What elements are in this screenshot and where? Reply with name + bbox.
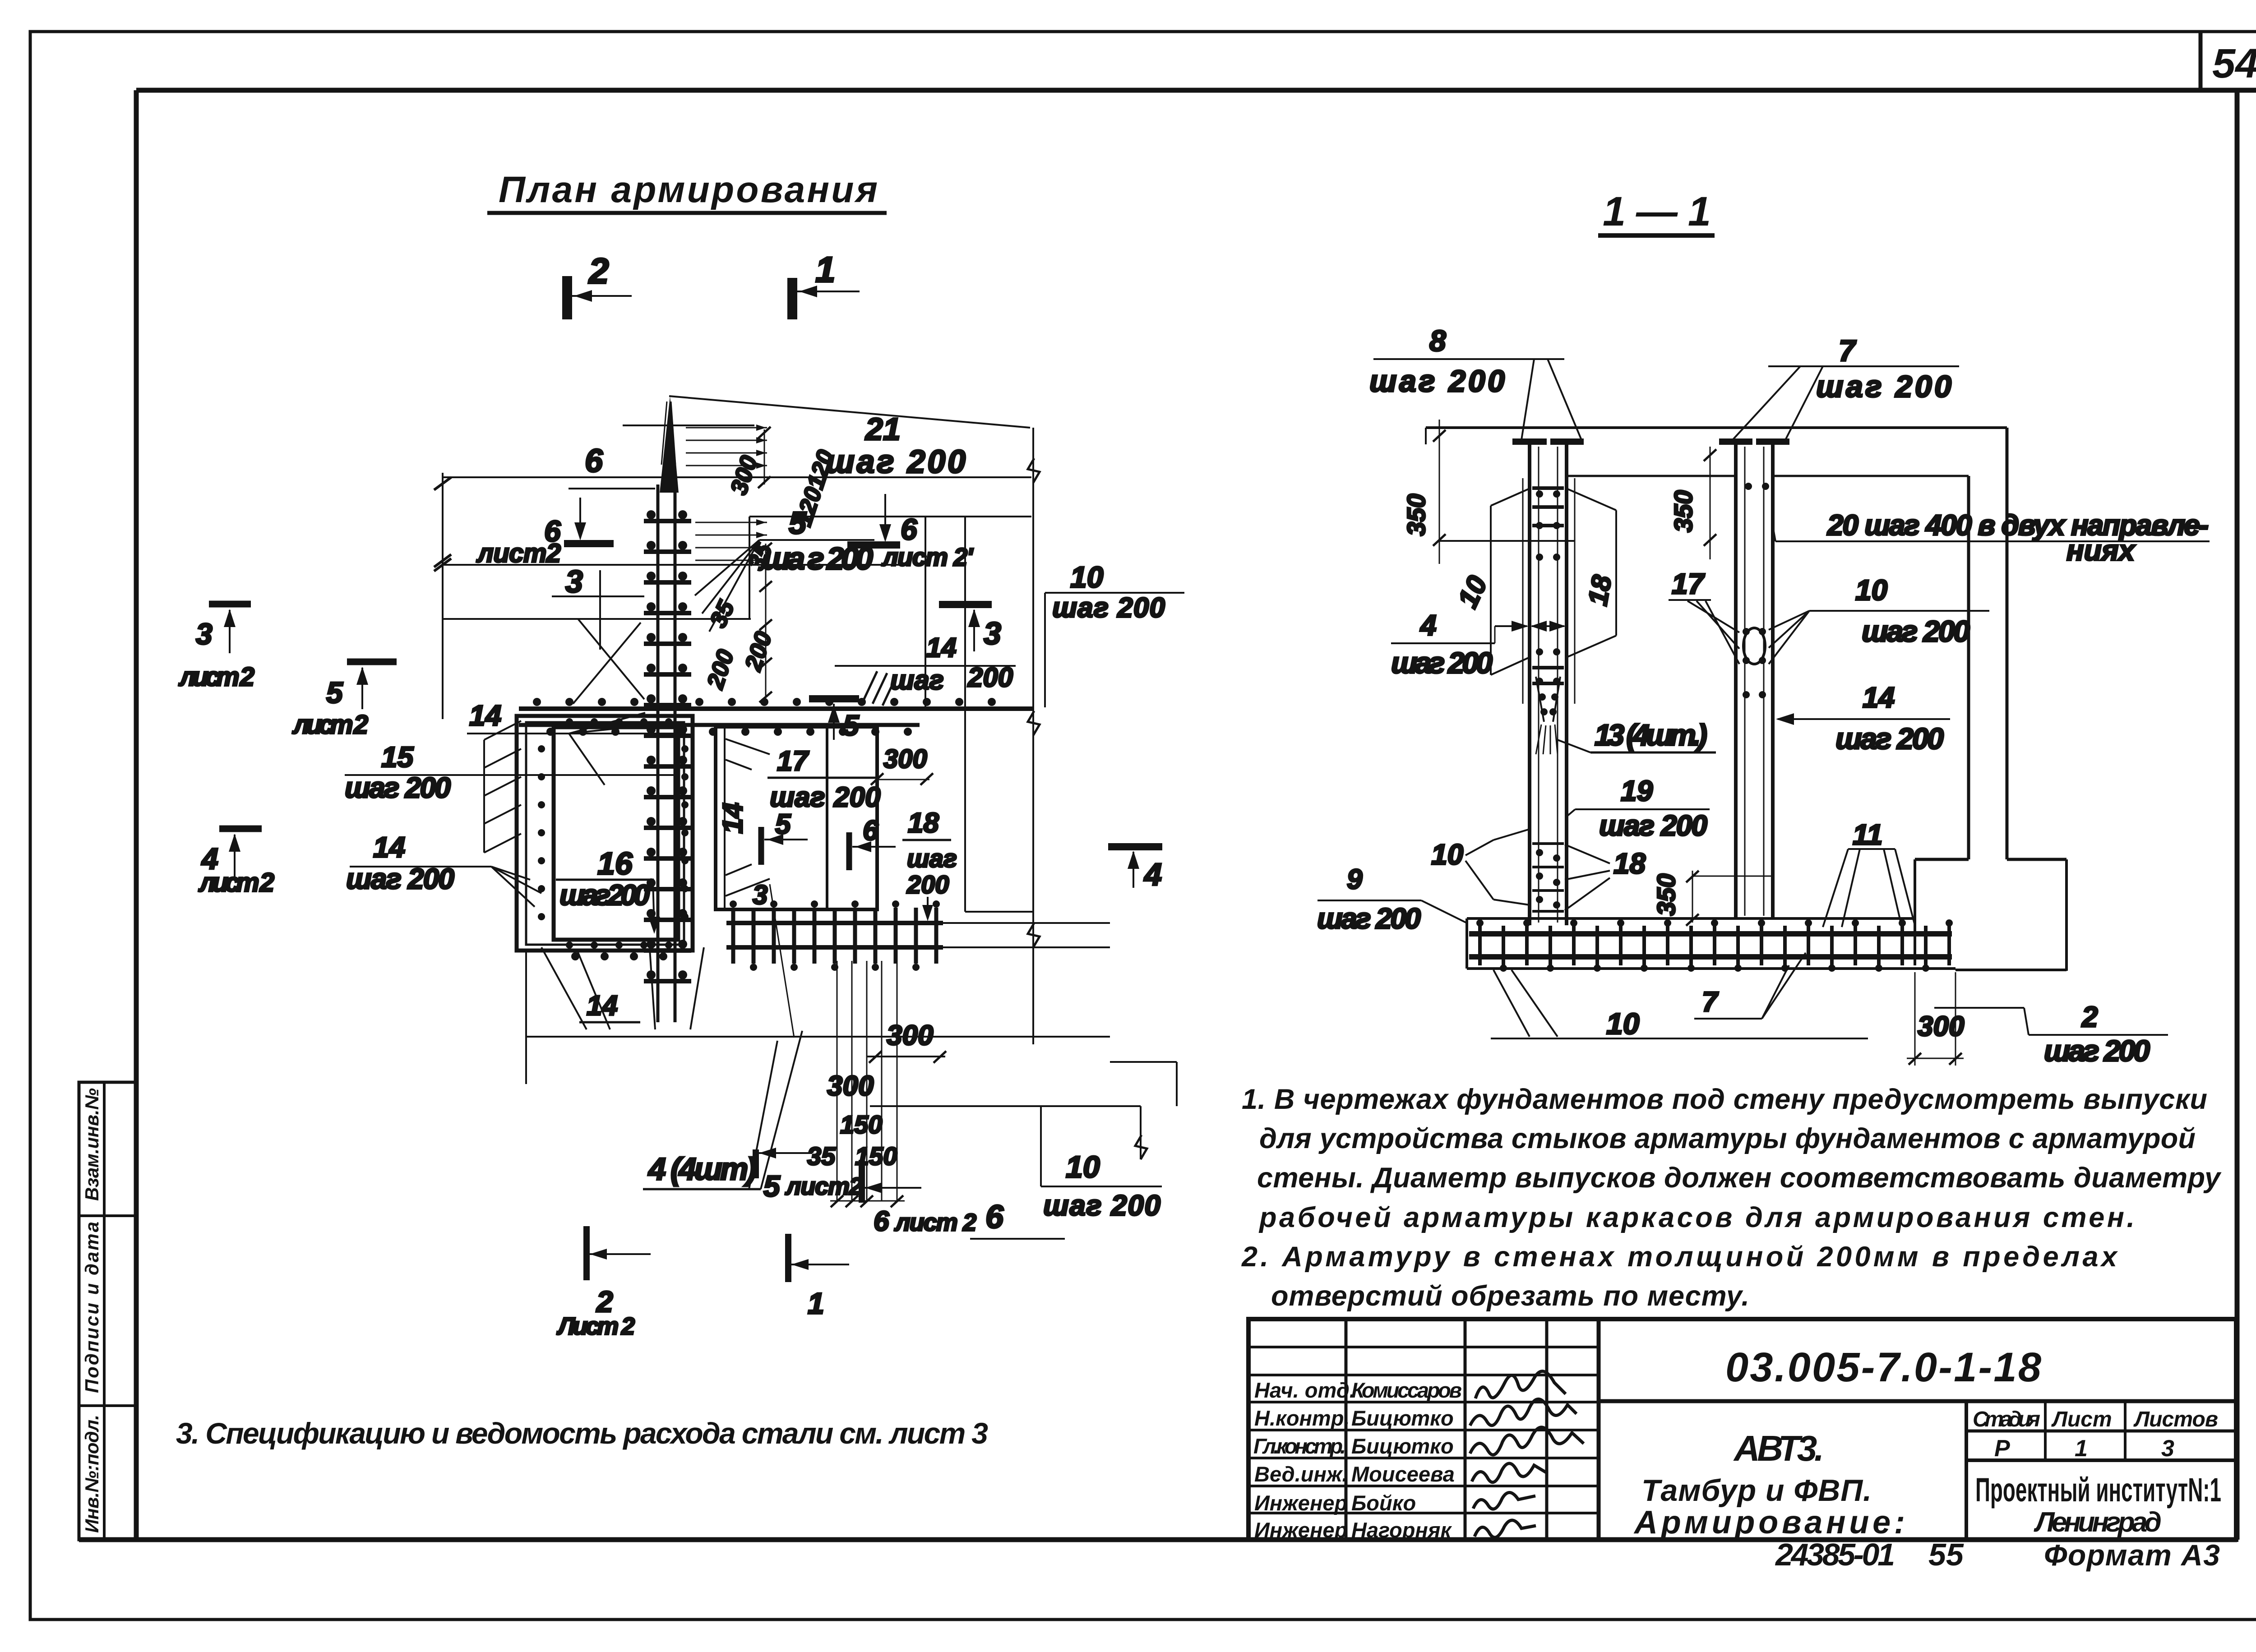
NOTES right column [1241,1084,2222,1312]
svg-text:3: 3 [2161,1435,2174,1462]
svg-text:шаг 200: шаг 200 [1835,722,1944,755]
svg-text:350: 350 [1402,494,1430,536]
svg-text:1. В чертежах фундаментов по: 1. В чертежах фундаментов под стену пред… [1242,1084,2207,1115]
svg-text:стены. Диаметр выпусков долж: стены. Диаметр выпусков должен соответст… [1257,1162,2222,1194]
svg-text:14: 14 [1863,681,1895,714]
svg-text:шаг: шаг [907,844,957,872]
svg-text:200: 200 [906,870,949,899]
svg-text:АВТ3.: АВТ3. [1733,1428,1824,1468]
svg-text:рабочей арматуры каркасов д: рабочей арматуры каркасов для армировани… [1258,1202,2135,1233]
top outline [1426,426,2007,429]
svg-text:шаг: шаг [770,782,825,813]
step at bottom right [1110,1061,1177,1063]
title block texts [1253,1378,1462,1542]
svg-text:17: 17 [1672,568,1706,600]
svg-text:Гл.констр.: Гл.констр. [1253,1434,1346,1458]
five thin verticals [837,961,897,1201]
SECTION DRAWING (right) [1317,324,2210,1067]
svg-text:7: 7 [1702,987,1719,1018]
svg-text:Бицютко: Бицютко [1351,1434,1454,1458]
4 marker right [1108,843,1162,850]
svg-text:для устройства стыков арматур: для устройства стыков арматуры фундамент… [1259,1123,2196,1154]
PLAN DRAWING (left) [434,249,1031,1022]
right wall [1736,443,1773,918]
inner frame top [136,88,2256,93]
svg-text:Нагорняк: Нагорняк [1351,1518,1452,1542]
svg-text:3: 3 [984,616,1001,651]
svg-text:10: 10 [1070,560,1104,594]
left hatch trapezoid [483,740,485,853]
svg-text:18: 18 [1613,847,1646,880]
marker 6 лист2 left [564,498,614,544]
svg-text:3: 3 [196,617,213,651]
svg-text:14: 14 [587,990,618,1021]
svg-text:300: 300 [827,1071,874,1102]
svg-text:Р: Р [1994,1435,2010,1462]
svg-text:35: 35 [807,1142,836,1170]
svg-text:200: 200 [967,662,1013,692]
5 marker with slashes [809,695,859,702]
svg-text:шаг 200: шаг 200 [1317,902,1421,935]
svg-text:Листов: Листов [2133,1407,2218,1431]
foundation rebar bands [1469,931,1952,937]
svg-text:лист 2: лист 2 [198,868,274,897]
svg-text:шаг 200: шаг 200 [346,863,454,895]
svg-text:Инв.№:подл.: Инв.№:подл. [81,1415,102,1533]
svg-text:лист 2: лист 2 [178,662,254,692]
foundation ties [1480,926,1949,965]
left wall extra lines and ties [1522,478,1524,704]
svg-text:19: 19 [1621,775,1653,807]
central rebar column [658,396,679,1022]
svg-text:Проектный институтN:1: Проектный институтN:1 [1975,1471,2221,1509]
far left markers [209,601,251,608]
left vertical dim line [442,473,444,719]
svg-text:Тамбур и ФВП.: Тамбур и ФВП. [1641,1473,1872,1508]
svg-text:Комиссаров: Комиссаров [1351,1378,1462,1402]
svg-text:Бойко: Бойко [1351,1491,1416,1515]
left wall wedges [1491,489,1530,506]
sheet number box 54 [2199,32,2203,90]
left wall [1530,443,1567,925]
hatch lines right of column top [686,428,767,560]
svg-text:План армирования: План армирования [499,169,878,210]
svg-text:1: 1 [808,1287,824,1320]
svg-text:3. Спецификацию и ведомость: 3. Спецификацию и ведомость расхода стал… [176,1417,988,1450]
svg-text:11: 11 [1853,818,1882,851]
svg-text:8: 8 [1429,324,1446,357]
svg-text:шаг200: шаг200 [559,879,650,911]
left 350 dim [1439,420,1440,564]
svg-text:6: 6 [985,1199,1004,1235]
svg-text:шаг 200: шаг 200 [345,771,451,804]
svg-text:15: 15 [381,741,414,773]
inner frame left [134,90,139,1540]
svg-text:лист2: лист2 [785,1173,863,1200]
svg-text:Лист 2: Лист 2 [556,1313,635,1340]
svg-text:2: 2 [2081,1001,2098,1033]
svg-text:1 — 1: 1 — 1 [1603,189,1711,235]
svg-text:54: 54 [2212,41,2256,87]
3 marker right [939,601,992,608]
svg-text:Подписи и дата: Подписи и дата [81,1222,102,1393]
svg-text:лист2: лист2 [476,539,561,568]
svg-text:14: 14 [926,632,957,663]
svg-text:Лист: Лист [2051,1407,2112,1431]
svg-text:Армирование:: Армирование: [1633,1504,1905,1541]
svg-text:9: 9 [1347,864,1363,895]
lower cage ties [1532,844,1564,911]
small vertical dim with slashes [765,544,767,697]
tie detail circle in right wall [1743,628,1765,664]
svg-text:18: 18 [908,808,939,839]
signatures [1470,1371,1584,1537]
svg-text:Вед.инж.: Вед.инж. [1254,1462,1348,1486]
svg-text:17: 17 [777,746,809,777]
svg-text:200: 200 [833,782,880,813]
svg-text:4 (4шт): 4 (4шт) [647,1151,757,1186]
right side outline of plan [964,517,966,912]
svg-text:4: 4 [1419,609,1437,641]
svg-text:150: 150 [840,1110,882,1139]
svg-text:350: 350 [1669,490,1697,532]
svg-text:лист 2': лист 2' [881,543,974,571]
foundation outline [1467,917,1915,920]
svg-text:13 (4шт.): 13 (4шт.) [1595,718,1707,752]
wall dots [1536,490,1560,715]
svg-text:5: 5 [326,676,343,709]
upper right band outline [749,516,1031,517]
svg-text:шаг 200: шаг 200 [1599,809,1707,842]
svg-text:шаг 200: шаг 200 [2044,1034,2150,1067]
svg-text:10: 10 [1606,1007,1640,1040]
left big box [517,716,693,951]
svg-text:24385-01: 24385-01 [1775,1537,1895,1572]
svg-text:7: 7 [1839,334,1857,367]
svg-text:Моисеева: Моисеева [1351,1462,1455,1486]
middle 350 dim [1710,447,1711,559]
bottom section markers [753,1149,759,1178]
svg-text:300: 300 [887,1020,933,1051]
svg-text:1: 1 [2075,1435,2088,1462]
5 marker in box [758,827,764,865]
svg-text:350: 350 [1652,874,1680,916]
svg-text:Стадия: Стадия [1973,1407,2040,1431]
svg-text:1: 1 [815,249,836,290]
svg-text:6: 6 [901,512,918,546]
svg-text:Формат А3: Формат А3 [2044,1538,2220,1572]
svg-text:03.005-7.0-1-18: 03.005-7.0-1-18 [1725,1344,2042,1390]
svg-text:18: 18 [1582,572,1618,608]
svg-text:5: 5 [843,709,860,742]
short wall line [623,425,754,426]
svg-text:10: 10 [1855,574,1887,606]
svg-text:2. Арматуру в стенах толщин: 2. Арматуру в стенах толщиной 200мм в пр… [1241,1241,2118,1273]
bottom rebar strip [726,921,943,925]
svg-text:4: 4 [1143,857,1162,892]
inner top lines [1567,475,1736,477]
svg-text:лист 2: лист 2 [894,1209,976,1236]
svg-text:ша г 200: ша г 200 [763,541,873,576]
svg-text:14: 14 [717,803,749,834]
section marker 2 top [567,276,632,319]
svg-text:6: 6 [585,443,603,479]
wall top-left line [443,618,751,620]
wall band thick lines [519,706,1033,711]
svg-text:3: 3 [753,880,767,910]
svg-text:2: 2 [588,251,609,291]
svg-text:шаг: шаг [890,665,944,695]
svg-text:10: 10 [1066,1150,1100,1184]
svg-text:6: 6 [863,815,878,846]
TITLE BLOCK [1248,1319,2236,1540]
inner frame bottom [79,1537,2237,1542]
svg-text:отверстий обрезать по месту.: отверстий обрезать по месту. [1271,1280,1749,1312]
svg-text:10: 10 [1431,838,1463,871]
svg-text:16: 16 [597,846,633,881]
trapezoid fan below box with 14 label [525,951,527,1084]
svg-text:шаг 200: шаг 200 [1862,614,1970,648]
svg-text:3: 3 [565,564,583,599]
svg-text:300: 300 [883,744,927,774]
svg-text:Взам.инв.№: Взам.инв.№ [81,1088,102,1201]
right box [716,727,877,909]
marker 6 лист2' right [847,494,900,545]
svg-text:Н.контр.: Н.контр. [1254,1406,1350,1430]
svg-text:Ленинград: Ленинград [2034,1507,2162,1538]
band dots [533,698,996,736]
svg-text:Бицютко: Бицютко [1351,1406,1454,1430]
svg-text:5: 5 [763,1169,781,1203]
svg-text:20 шаг 400 в двух направле-: 20 шаг 400 в двух направле- [1827,509,2209,541]
svg-text:ниях: ниях [2066,534,2136,567]
svg-text:Нач. отд.: Нач. отд. [1254,1378,1355,1402]
svg-text:Инженер: Инженер [1254,1491,1347,1515]
svg-text:5: 5 [775,809,791,840]
svg-text:14: 14 [373,831,405,863]
pedestal [1915,858,1969,861]
svg-text:лист 2: лист 2 [292,710,368,739]
left column stamp boxes [79,1082,136,1540]
section marker 1 top [792,278,860,319]
350 dim lower [1692,871,1693,923]
6 marker in box [846,832,852,870]
right outline verticals [1967,476,1970,859]
svg-text:55: 55 [1928,1537,1964,1572]
svg-text:5: 5 [789,505,807,540]
svg-text:14: 14 [469,699,501,732]
svg-text:Инженер: Инженер [1254,1518,1347,1542]
column tie bars with dots [644,521,691,981]
svg-text:шаг 200: шаг 200 [1391,646,1493,679]
funnel below [1536,677,1544,722]
svg-text:6: 6 [874,1206,889,1237]
inner frame right [2235,90,2240,1540]
svg-text:300: 300 [1918,1011,1964,1042]
